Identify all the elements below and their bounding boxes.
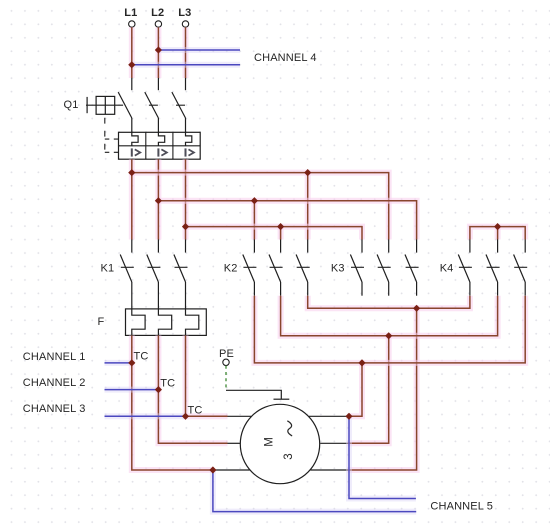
node row2-K2.1 — [251, 197, 258, 204]
wire phase row 3 to K3.1 — [186, 227, 363, 240]
label TC pole3 — [188, 405, 203, 417]
wire CHANNEL 4 tap upper — [158, 47, 240, 53]
overload F heater pole 2 — [158, 309, 171, 336]
motor terminal V2 stub — [320, 442, 347, 444]
svg-text:L3: L3 — [178, 7, 191, 19]
label CHANNEL 2 — [23, 377, 86, 389]
Q1 trip unit block — [119, 132, 201, 159]
node row3-K2.2 — [277, 223, 284, 230]
contactor K1 pole 1 contact — [120, 240, 134, 309]
contactor K4 pole 1 contact — [458, 240, 472, 296]
wire Q1.3 output — [183, 159, 189, 239]
node CHANNEL4-L2 junction — [155, 46, 162, 53]
wire F.2 to motor V — [158, 335, 227, 443]
wire net branch to motor W2 — [348, 308, 417, 470]
label F — [98, 316, 105, 328]
wire CHANNEL 3 tap — [105, 413, 186, 419]
wire L2 to Q1 — [155, 27, 161, 78]
wire L1 to Q1 — [129, 27, 135, 78]
label CHANNEL 4 — [254, 52, 317, 64]
svg-text:Q1: Q1 — [64, 99, 79, 111]
node CHANNEL5 lower junction — [209, 466, 216, 473]
svg-text:3: 3 — [283, 453, 295, 459]
wire F.3 to motor U — [186, 335, 228, 416]
contactor K4 pole 3 contact — [514, 240, 528, 296]
label CHANNEL 1 — [23, 351, 86, 363]
node net1-K3.3 — [413, 305, 420, 312]
svg-text:CHANNEL 3: CHANNEL 3 — [23, 403, 86, 415]
breaker Q1 operator box — [86, 96, 123, 114]
node row3-K1.3 — [182, 223, 189, 230]
contactor K4 pole 2 contact — [486, 240, 500, 296]
contactor K2 pole 2 contact — [269, 240, 283, 296]
motor terminal U1 stub — [228, 415, 252, 417]
breaker Q1 pole 3 contact — [172, 78, 186, 132]
wire net branch to motor U2 — [348, 363, 363, 416]
contactor K2 pole 3 contact — [296, 240, 310, 296]
wire net K2.2-K4.2 — [281, 296, 498, 336]
node row1-K2.3 — [304, 169, 311, 176]
node K4 bridge centre — [494, 223, 501, 230]
wire CHANNEL 2 tap — [105, 387, 159, 393]
svg-text:TC: TC — [134, 350, 149, 362]
breaker Q1 pole 1 contact — [118, 78, 132, 132]
label K4 — [440, 262, 454, 274]
contactor K3 pole 3 contact — [405, 240, 419, 296]
motor terminal W2 stub — [310, 469, 347, 471]
terminal L3 — [178, 7, 191, 27]
svg-text:PE: PE — [219, 348, 234, 360]
svg-text:TC: TC — [160, 378, 175, 390]
wire PE to motor frame — [226, 390, 289, 399]
wire PE green dashed — [225, 366, 227, 391]
wire F.1 to motor W — [132, 335, 213, 470]
svg-text:M: M — [264, 437, 276, 447]
overload relay F body — [126, 309, 207, 336]
Q1 magnetic release I> pole 1 — [132, 148, 140, 156]
svg-text:L2: L2 — [151, 7, 164, 19]
Q1 magnetic release I> pole 3 — [186, 148, 194, 156]
Q1 thermal release pole 2 — [158, 132, 164, 146]
motor terminal U2 stub — [309, 415, 348, 417]
label K2 — [224, 262, 238, 274]
overload F heater pole 1 — [132, 309, 145, 336]
svg-text:TC: TC — [188, 405, 203, 417]
wire K4 star bridge — [470, 227, 525, 240]
motor terminal W1 stub — [213, 469, 250, 471]
svg-text:L1: L1 — [124, 7, 137, 19]
node row2-K1.2 — [155, 197, 162, 204]
node net3-K3.1 — [358, 359, 365, 366]
node net2-K3.2 — [385, 332, 392, 339]
wire CHANNEL 1 tap — [105, 360, 132, 366]
label CHANNEL 3 — [23, 403, 86, 415]
wire row2 drop to K2.1 — [251, 201, 257, 240]
contactor K3 pole 2 contact — [377, 240, 391, 296]
wire net K2.1-K4.3 — [254, 296, 525, 363]
wire CHANNEL 5 upper — [349, 416, 416, 498]
svg-text:K2: K2 — [224, 262, 238, 274]
Q1 magnetic release I> pole 2 — [158, 148, 166, 156]
svg-text:CHANNEL 1: CHANNEL 1 — [23, 351, 86, 363]
wire Q1.1 output — [129, 159, 135, 239]
label TC pole1 — [134, 350, 149, 362]
wire Q1.2 output — [155, 159, 161, 239]
node row1-K1.1 — [128, 169, 135, 176]
wire CHANNEL 5 lower — [213, 470, 416, 512]
svg-text:CHANNEL 2: CHANNEL 2 — [23, 377, 86, 389]
wire CHANNEL 4 tap lower — [132, 62, 240, 68]
label TC pole2 — [160, 378, 175, 390]
wire L3 to Q1 — [183, 27, 189, 78]
contactor K2 pole 1 contact — [243, 240, 257, 296]
motor terminal V1 stub — [228, 442, 241, 444]
overload F heater pole 3 — [186, 309, 199, 336]
wire phase row 1 to K3.2 — [132, 173, 389, 240]
contactor K3 pole 1 contact — [350, 240, 364, 296]
terminal L2 — [151, 7, 164, 27]
node CHANNEL1 junction — [128, 359, 135, 366]
svg-text:F: F — [98, 316, 105, 328]
wire row1 drop to K2.3 — [305, 173, 311, 240]
Q1 thermal release pole 3 — [186, 132, 192, 146]
wire phase row 2 to K3.3 — [158, 201, 416, 240]
label Q1 — [64, 99, 79, 111]
Q1 mechanical linkage dashed — [105, 118, 119, 153]
label CHANNEL 5 — [430, 501, 493, 513]
wire net K2.3-K4.1 — [308, 296, 470, 309]
contactor K1 pole 2 contact — [147, 240, 161, 309]
node CHANNEL3 junction — [182, 413, 189, 420]
motor label M — [264, 437, 276, 447]
terminal L1 — [124, 7, 137, 27]
motor label tilde — [288, 421, 292, 436]
terminal PE — [223, 359, 229, 365]
svg-text:CHANNEL 5: CHANNEL 5 — [430, 501, 493, 513]
node CHANNEL4-L1 junction — [128, 61, 135, 68]
svg-text:K4: K4 — [440, 262, 454, 274]
node CHANNEL2 junction — [155, 386, 162, 393]
Q1 thermal release pole 1 — [132, 132, 138, 146]
svg-text:K3: K3 — [331, 262, 345, 274]
label PE — [219, 348, 234, 360]
wire net branch to motor V2 — [348, 336, 389, 444]
label K1 — [101, 262, 115, 274]
node CHANNEL5 upper junction — [345, 413, 352, 420]
label K3 — [331, 262, 345, 274]
svg-text:CHANNEL 4: CHANNEL 4 — [254, 52, 317, 64]
motor label 3 — [283, 453, 295, 459]
contactor K1 pole 3 contact — [174, 240, 188, 309]
svg-text:K1: K1 — [101, 262, 115, 274]
breaker Q1 pole 2 contact — [145, 78, 159, 132]
wire row3 drop to K2.2 — [278, 227, 284, 240]
motor M1 body — [240, 404, 319, 483]
